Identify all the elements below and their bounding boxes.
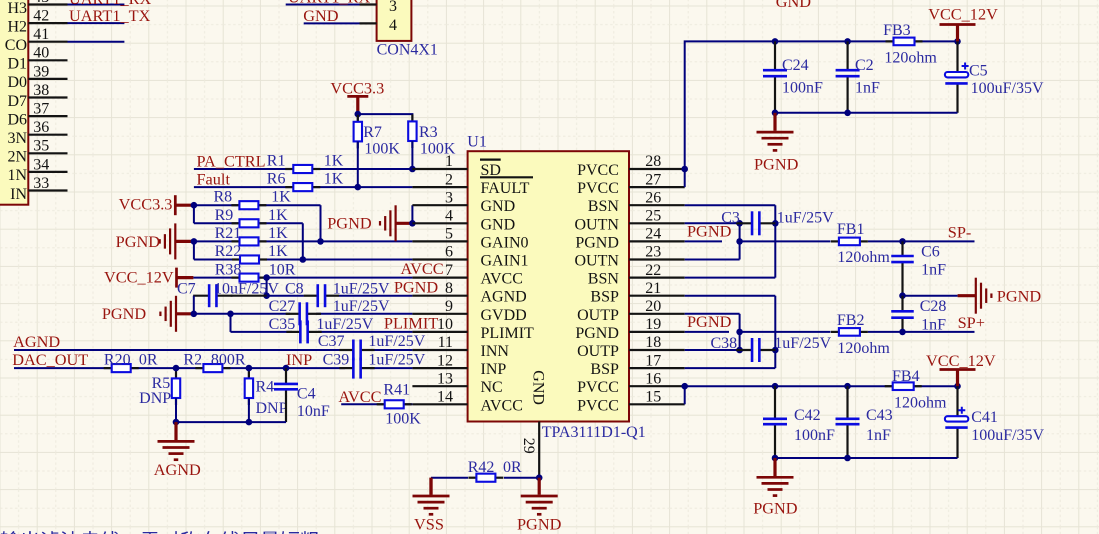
U1 pin 21 (629, 295, 685, 297)
svg-text:R1: R1 (267, 153, 286, 170)
pin 39 of left header (28, 78, 67, 80)
svg-text:GND: GND (776, 0, 812, 11)
wire DAC_OUT / INP row (14, 367, 345, 369)
wire bottom decoupling ground rail (775, 457, 958, 459)
svg-text:1uF/25V: 1uF/25V (777, 209, 834, 226)
resistor R41 (377, 400, 412, 408)
svg-text:C38: C38 (711, 335, 738, 352)
U1 pin 8 (412, 295, 467, 297)
wire to R5 (175, 368, 177, 378)
svg-text:100uF/35V: 100uF/35V (971, 427, 1044, 444)
wire riser to C35 row (230, 314, 232, 332)
svg-text:AVCC: AVCC (481, 271, 523, 288)
svg-text:16: 16 (645, 370, 661, 387)
capacitor C38 (736, 338, 775, 362)
svg-text:OUTP: OUTP (577, 343, 619, 360)
svg-text:R2: R2 (183, 352, 202, 369)
svg-text:FB2: FB2 (837, 312, 865, 329)
wire junction to C8 (267, 295, 304, 297)
U1 pin 13 (412, 385, 467, 387)
wire R3 bottom to PA_CTRL net (411, 141, 413, 169)
svg-text:0R: 0R (139, 352, 158, 369)
wire BSP pin21 (685, 295, 776, 297)
svg-text:36: 36 (33, 119, 49, 136)
svg-text:1uF/25V: 1uF/25V (333, 298, 390, 315)
resistor R2 (195, 364, 230, 372)
wire PGND row to C27 (194, 313, 290, 315)
U1 pin 28 (629, 168, 685, 170)
resistor R6 (285, 183, 320, 191)
svg-text:PGND: PGND (116, 232, 161, 251)
svg-text:1uF/25V: 1uF/25V (333, 280, 390, 297)
U1 pin 26 (629, 204, 685, 206)
svg-text:PGND: PGND (394, 277, 439, 296)
junction VCC3.3 row3 (191, 202, 198, 209)
svg-text:21: 21 (645, 280, 661, 297)
svg-text:C24: C24 (782, 57, 809, 74)
ferrite bead FB3 (886, 38, 923, 46)
junction OUTN-FB1 node (736, 238, 743, 245)
junction C7-C8 node (263, 292, 270, 299)
svg-text:PVCC: PVCC (577, 162, 619, 179)
wire PVCC top to VCC_12V (685, 41, 958, 187)
ground VSS symbol (413, 478, 450, 515)
svg-text:10: 10 (437, 316, 453, 333)
svg-text:AGND: AGND (481, 289, 527, 306)
junction rail C24 (772, 110, 779, 117)
wire UART1_RX from pin 43 (68, 4, 125, 6)
svg-text:R21: R21 (215, 225, 242, 242)
capacitor C8 (304, 284, 339, 307)
capacitor C27 (286, 302, 321, 325)
resistor R20 (104, 364, 139, 372)
power port VCC3.3 (top) (347, 96, 368, 114)
wire riser row3 to row4 (193, 205, 195, 223)
junction OUTP-FB2 node (736, 329, 743, 336)
wire PGND stub pin24 (685, 240, 722, 242)
capacitor C5 (polarized) (945, 41, 969, 112)
resistor R4 (245, 371, 253, 405)
U1 pin 27 (629, 186, 685, 188)
svg-text:GND: GND (481, 216, 516, 233)
wire R8 output riser (320, 205, 322, 241)
svg-text:1K: 1K (271, 189, 291, 206)
svg-text:CO: CO (5, 37, 27, 54)
svg-text:1nF: 1nF (921, 261, 946, 278)
wire C35 to pin 10 (318, 331, 412, 333)
wire OUTP riser (739, 314, 741, 350)
svg-text:DAC_OUT: DAC_OUT (12, 350, 88, 369)
svg-text:C35: C35 (269, 316, 296, 333)
svg-text:18: 18 (645, 334, 661, 351)
pin 42 of left header (28, 22, 67, 24)
svg-text:PVCC: PVCC (577, 379, 619, 396)
U1 pin 19 (629, 331, 685, 333)
wire BSP riser (774, 296, 776, 368)
svg-text:FB1: FB1 (837, 221, 865, 238)
junction R4 tap (246, 365, 253, 372)
wire pin16 to pin15 (684, 386, 686, 404)
svg-text:C27: C27 (269, 298, 296, 315)
svg-text:1K: 1K (268, 207, 288, 224)
svg-text:R41: R41 (383, 381, 410, 398)
svg-text:PGND: PGND (102, 304, 147, 323)
svg-text:GAIN1: GAIN1 (481, 253, 529, 270)
wire OUTN riser (739, 223, 741, 259)
U1 pin 25 (629, 222, 685, 224)
pin 37 of left header (28, 115, 67, 117)
svg-text:26: 26 (645, 189, 661, 206)
svg-text:UART1_TX: UART1_TX (69, 6, 151, 25)
svg-text:120ohm: 120ohm (894, 394, 947, 411)
junction OUTN-C3 node (736, 220, 743, 227)
wire OUTP to FB2 (740, 331, 831, 333)
svg-text:BSP: BSP (590, 289, 619, 306)
svg-text:PGND: PGND (754, 154, 799, 173)
capacitor C35 (286, 320, 321, 343)
svg-text:25: 25 (645, 208, 661, 225)
svg-text:1N: 1N (7, 167, 27, 184)
svg-text:BSN: BSN (588, 271, 620, 288)
svg-text:6: 6 (445, 244, 453, 261)
capacitor C2 (836, 41, 860, 112)
svg-text:100nF: 100nF (782, 79, 823, 96)
svg-text:BSN: BSN (588, 198, 620, 215)
svg-text:NC: NC (481, 379, 503, 396)
svg-text:40: 40 (33, 45, 49, 62)
svg-text:PLIMIT: PLIMIT (384, 314, 438, 333)
U1 pin 11 (412, 349, 467, 351)
svg-text:8: 8 (445, 280, 453, 297)
svg-text:29: 29 (520, 438, 537, 454)
wire BSN pin26 (685, 204, 776, 206)
pin 38 of left header (28, 96, 67, 98)
wire C8 to pin 8 (339, 295, 412, 297)
svg-text:PGND: PGND (687, 312, 732, 331)
svg-text:R42: R42 (468, 459, 495, 476)
svg-text:SP-: SP- (948, 222, 972, 241)
svg-text:H3: H3 (7, 0, 27, 17)
junction rail C42 (772, 455, 779, 462)
svg-text:DNP: DNP (256, 400, 288, 417)
resistor R7 (354, 115, 362, 149)
wire GND to CON4X1 pin 4 (304, 22, 360, 24)
svg-text:14: 14 (437, 389, 453, 406)
wire BSP pin17 (685, 367, 776, 369)
svg-text:C37: C37 (318, 333, 345, 350)
pin 36 of left header (28, 134, 67, 136)
svg-text:AVCC: AVCC (481, 397, 523, 414)
svg-text:800R: 800R (211, 352, 246, 369)
svg-text:R9: R9 (215, 207, 234, 224)
svg-text:3: 3 (445, 189, 453, 206)
svg-text:SP+: SP+ (958, 313, 985, 332)
svg-text:33: 33 (33, 175, 49, 192)
U1 pin 23 (629, 258, 685, 260)
svg-text:1uF/25V: 1uF/25V (316, 316, 373, 333)
svg-text:100nF: 100nF (794, 427, 835, 444)
svg-text:VSS: VSS (414, 515, 444, 534)
svg-text:39: 39 (33, 63, 49, 80)
junction at U1 pin 1 (409, 166, 416, 173)
junction R7-Fault (355, 184, 362, 191)
svg-text:35: 35 (33, 138, 49, 155)
U1 pin 24 (629, 240, 685, 242)
svg-text:10uF/25V: 10uF/25V (214, 280, 279, 297)
resistor R42 (468, 474, 503, 482)
junction C35 tap (227, 311, 234, 318)
svg-text:1K: 1K (268, 243, 288, 260)
U1 pin 16 (629, 385, 685, 387)
wire AVCC stub to R41 (341, 403, 412, 405)
wire from pin 41 (68, 41, 125, 43)
junction C43 tap (844, 383, 851, 390)
ground PGND below C24 (757, 113, 794, 151)
svg-text:1uF/25V: 1uF/25V (368, 352, 425, 369)
wire VSS stem (429, 478, 432, 495)
svg-text:GAIN0: GAIN0 (481, 234, 529, 251)
wire Fault net row (194, 186, 413, 188)
svg-text:DNP: DNP (139, 390, 171, 407)
svg-text:FB3: FB3 (883, 22, 911, 39)
wire OUTN pin25 (685, 222, 740, 224)
wire FB2 to SP+ (868, 331, 975, 333)
pin 33 of left header (28, 189, 67, 191)
svg-text:C7: C7 (177, 280, 196, 297)
junction C24 top tap (772, 38, 779, 45)
junction AGND rail R4 (246, 419, 253, 426)
svg-text:1K: 1K (324, 171, 344, 188)
wire R5 to AGND rail (175, 398, 177, 422)
resistor R21 (232, 237, 267, 245)
svg-text:VCC_12V: VCC_12V (928, 5, 998, 24)
svg-text:C6: C6 (921, 243, 940, 260)
junction R8-R21 node (317, 238, 324, 245)
resistor R8 (231, 201, 266, 209)
junction C6-C28 PGND node (899, 292, 906, 299)
wire top decoupling ground rail (775, 112, 958, 114)
wire AVCC row to pin 7 (193, 277, 412, 279)
svg-text:PGND: PGND (517, 515, 562, 534)
svg-text:BSP: BSP (590, 361, 619, 378)
wire C7 left riser to PGND row (193, 296, 195, 314)
svg-text:12: 12 (437, 352, 453, 369)
junction R5 tap (173, 365, 180, 372)
svg-text:C8: C8 (285, 280, 304, 297)
junction VCC3.3 node (355, 111, 362, 118)
wire OUTN pin23 (685, 259, 740, 261)
svg-text:PGND: PGND (327, 214, 372, 233)
power port VCC3.3 (left) (175, 195, 194, 215)
capacitor C42 (763, 386, 787, 458)
svg-text:AGND: AGND (13, 332, 60, 351)
svg-text:VCC3.3: VCC3.3 (330, 78, 384, 97)
svg-text:GND: GND (481, 198, 516, 215)
svg-text:R4: R4 (256, 378, 275, 395)
svg-text:100uF/35V: 100uF/35V (971, 80, 1044, 97)
svg-text:CON4X1: CON4X1 (377, 41, 438, 58)
svg-text:GVDD: GVDD (481, 307, 527, 324)
svg-text:11: 11 (438, 334, 453, 351)
svg-text:C42: C42 (794, 407, 821, 424)
junction VCC_12V top node (954, 38, 961, 45)
svg-text:13: 13 (437, 370, 453, 387)
U1 pin 5 (412, 240, 467, 242)
svg-text:5: 5 (445, 226, 453, 243)
power port VCC_12V (left) (177, 268, 194, 288)
junction R9-R22 node (300, 256, 307, 263)
svg-text:PGND: PGND (687, 221, 732, 240)
svg-text:D1: D1 (7, 56, 27, 73)
svg-text:17: 17 (645, 352, 661, 369)
svg-text:C2: C2 (855, 57, 874, 74)
svg-text:19: 19 (645, 316, 661, 333)
svg-text:PLIMIT: PLIMIT (481, 325, 535, 342)
junction rail C2 (844, 110, 851, 117)
pin 34 of left header (28, 171, 67, 173)
svg-text:20: 20 (645, 298, 661, 315)
svg-text:OUTN: OUTN (574, 253, 619, 270)
ground PGND below C42 (757, 458, 794, 496)
wire VCC3.3 to R3 top (358, 114, 413, 122)
svg-text:1K: 1K (324, 153, 344, 170)
wire UART1_RX to CON4X1 pin 3 (286, 4, 360, 6)
svg-text:GND: GND (530, 370, 547, 405)
resistor R22 (232, 255, 267, 263)
svg-text:27: 27 (645, 171, 661, 188)
svg-text:PVCC: PVCC (577, 397, 619, 414)
wire AVCC riser to C7 row (266, 278, 268, 296)
svg-text:42: 42 (33, 8, 49, 25)
ground PGND (left, row5) (160, 223, 194, 259)
wire VCC3.3 to R8 row (194, 204, 321, 206)
wire PVCC bottom to VCC_12V (685, 385, 958, 387)
capacitor C3 (736, 211, 775, 235)
svg-text:Fault: Fault (197, 170, 231, 189)
svg-text:INP: INP (286, 350, 312, 369)
capacitor C43 (836, 386, 860, 458)
svg-text:9: 9 (445, 298, 453, 315)
U1 pin 12 (412, 367, 467, 369)
junction C38 right tap (772, 347, 779, 354)
wire PGND stub pin19 (685, 331, 729, 333)
junction AGND rail left (173, 419, 180, 426)
svg-text:PGND: PGND (575, 234, 619, 251)
wire GAIN1 row to pin 6 (194, 259, 413, 261)
svg-text:OUTP: OUTP (577, 307, 619, 324)
svg-text:4: 4 (445, 208, 453, 225)
svg-text:OUTN: OUTN (574, 216, 619, 233)
svg-text:2: 2 (445, 171, 453, 188)
wire R9 output riser (302, 223, 304, 259)
wire OUTN to FB1 (740, 240, 831, 242)
wire to C35 (231, 331, 293, 333)
pin 40 of left header (28, 59, 67, 61)
svg-text:GND: GND (303, 6, 339, 25)
svg-text:U1: U1 (467, 134, 487, 151)
svg-text:D6: D6 (7, 111, 27, 128)
resistor R5 (172, 371, 180, 405)
U1 pin 18 (629, 349, 685, 351)
connector CON4X1 body (cropped top) (377, 0, 412, 41)
junction pin16 (681, 383, 688, 390)
wire FB1 to SP- (868, 240, 975, 242)
svg-text:0R: 0R (503, 459, 522, 476)
capacitor C24 (763, 41, 787, 112)
svg-text:41: 41 (33, 26, 49, 43)
wire OUTP pin18 (685, 349, 740, 351)
svg-text:120ohm: 120ohm (884, 49, 937, 66)
svg-text:R7: R7 (363, 124, 382, 141)
pin 41 of left header (28, 41, 67, 43)
junction R38 output (263, 274, 270, 281)
svg-text:1uF/25V: 1uF/25V (774, 335, 831, 352)
wire VCC3.3 to R7 top (357, 114, 359, 122)
connector J? left header body (cropped) (0, 0, 28, 205)
U1 pin 17 (629, 367, 685, 369)
U1 pin 22 (629, 277, 685, 279)
resistor R1 (285, 165, 320, 173)
junction C42 tap (772, 383, 779, 390)
wire VSS to R42 (431, 477, 468, 479)
svg-text:D0: D0 (7, 74, 27, 91)
wire BSN pin22 (685, 277, 776, 279)
capacitor C7 (193, 284, 232, 307)
svg-text:VCC3.3: VCC3.3 (119, 194, 173, 213)
svg-text:10R: 10R (269, 261, 296, 278)
ferrite bead FB2 (831, 328, 868, 336)
U1 pin 29 (538, 422, 540, 478)
junction OUTP-C38 node (736, 347, 743, 354)
ferrite bead FB4 (885, 382, 922, 390)
svg-text:1uF/25V: 1uF/25V (368, 333, 425, 350)
svg-text:37: 37 (33, 101, 49, 118)
ground PGND (left, row9) (160, 296, 194, 332)
U1 pin 2 (412, 186, 467, 188)
svg-text:AGND: AGND (154, 460, 201, 479)
U1 pin 15 (629, 403, 685, 405)
wire GAIN0 row to pin 5 (194, 240, 413, 242)
svg-text:C43: C43 (866, 407, 893, 424)
svg-text:C39: C39 (323, 352, 350, 369)
svg-text:FB4: FB4 (892, 368, 920, 385)
pin 43 of left header (28, 3, 67, 5)
U1 pin 20 (629, 313, 685, 315)
svg-text:PGND: PGND (575, 325, 619, 342)
svg-text:34: 34 (33, 156, 49, 173)
svg-text:R22: R22 (215, 243, 242, 260)
svg-text:VCC_12V: VCC_12V (926, 351, 996, 370)
svg-text:2N: 2N (7, 149, 27, 166)
svg-text:1: 1 (445, 153, 453, 170)
wire PA_CTRL net row (194, 168, 413, 170)
svg-text:3: 3 (389, 0, 397, 15)
svg-text:AVCC: AVCC (400, 259, 443, 278)
capacitor C41 (polarized) (945, 386, 968, 458)
wire to R4 (248, 368, 250, 378)
svg-text:R8: R8 (214, 189, 233, 206)
junction C3 right tap (772, 220, 779, 227)
wire AGND rail (176, 421, 286, 423)
svg-text:R6: R6 (267, 171, 286, 188)
svg-text:38: 38 (33, 82, 49, 99)
svg-text:INP: INP (481, 361, 507, 378)
wire UART1_TX from pin 42 (68, 22, 125, 24)
ground PGND below pin29 (521, 478, 558, 515)
svg-text:4: 4 (389, 17, 397, 34)
ground PGND (near pin 4) (380, 205, 414, 241)
wire to PGND port right (903, 295, 958, 297)
